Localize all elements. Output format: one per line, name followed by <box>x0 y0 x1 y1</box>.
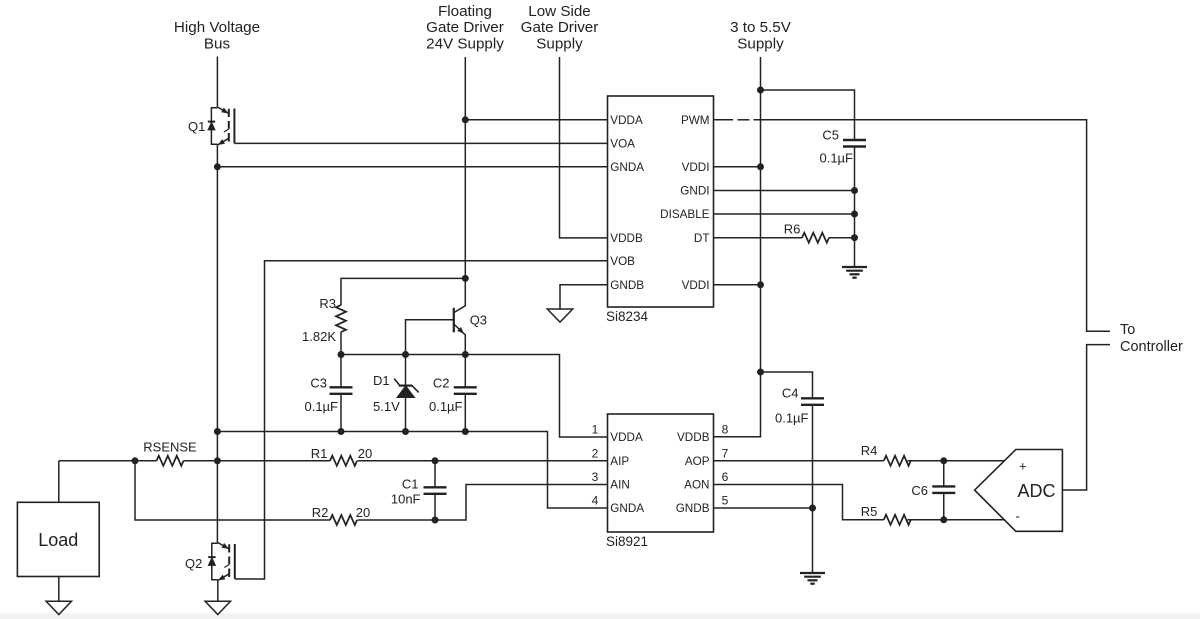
svg-text:Q3: Q3 <box>470 313 487 328</box>
svg-text:C2: C2 <box>433 376 450 391</box>
wire: Q2 emitter to ground <box>217 581 219 602</box>
svg-text:6: 6 <box>722 470 729 484</box>
svg-text:10nF: 10nF <box>391 492 421 507</box>
node: C4 branch junction <box>757 369 764 376</box>
wire: VDDA to Si8234 <box>465 119 607 121</box>
wire: high voltage bus vertical <box>216 57 218 108</box>
node: RSENSE right junction <box>214 457 221 464</box>
wire: emitter node rail to Si8921 VDDA pin1 <box>341 355 608 438</box>
resistor RSENSE <box>157 456 184 466</box>
pin number 6 <box>722 470 729 484</box>
wire: PWM output with dash <box>714 120 1111 331</box>
transistor Q3 (NPN) <box>406 278 466 354</box>
node: C6 top junction <box>940 457 947 464</box>
node: C6 bottom junction <box>940 516 947 523</box>
svg-text:R5: R5 <box>861 504 878 519</box>
wire: load node to RSENSE <box>59 460 157 462</box>
svg-text:High Voltage: High Voltage <box>174 19 260 36</box>
IC U1 Si8234 <box>606 96 714 324</box>
svg-text:VDDB: VDDB <box>610 232 643 245</box>
svg-text:Bus: Bus <box>204 35 231 52</box>
bottom edge strip <box>0 614 1200 619</box>
svg-text:Si8921: Si8921 <box>606 534 648 549</box>
node: GNDA rail at Q1/Q2 vertical <box>214 428 221 435</box>
wire: R6 to ground rail <box>829 237 855 239</box>
svg-text:7: 7 <box>722 446 729 460</box>
svg-text:20: 20 <box>358 446 372 461</box>
pin number 5 <box>722 494 729 508</box>
svg-text:GNDA: GNDA <box>610 161 644 174</box>
svg-text:0.1µF: 0.1µF <box>819 151 853 166</box>
label: High Voltage Bus <box>174 19 260 52</box>
svg-text:Si8234: Si8234 <box>606 309 649 324</box>
svg-text:R6: R6 <box>784 222 801 237</box>
pin labels Si8234 right <box>660 114 710 292</box>
wire: R4 to ADC plus <box>908 460 1005 462</box>
svg-text:Gate Driver: Gate Driver <box>426 19 504 36</box>
wire: C4 branch <box>761 372 813 398</box>
wire: R1 to AIP pin2 <box>358 460 608 462</box>
svg-text:VDDI: VDDI <box>682 161 710 174</box>
node: Q1 emitter / GNDA junction <box>214 163 221 170</box>
svg-text:GNDB: GNDB <box>676 502 710 515</box>
svg-text:DT: DT <box>694 232 710 245</box>
svg-text:VOB: VOB <box>610 255 635 268</box>
label: Low Side Gate Driver Supply <box>521 3 599 52</box>
svg-text:20: 20 <box>356 505 370 520</box>
node: Q3 collector junction <box>462 275 469 282</box>
label Q2 <box>185 556 202 571</box>
svg-text:24V Supply: 24V Supply <box>426 35 504 52</box>
wire: VOA from Q1 gate to Si8234 <box>234 142 607 144</box>
pin number 3 <box>592 470 599 484</box>
svg-text:C1: C1 <box>402 477 419 492</box>
svg-text:VDDA: VDDA <box>610 431 643 444</box>
diode D1 (zener 5.1V) <box>373 355 419 432</box>
node: VDDI top junction <box>757 163 764 170</box>
svg-text:C6: C6 <box>911 483 928 498</box>
svg-text:Low Side: Low Side <box>528 3 590 20</box>
label Q1 <box>188 119 205 134</box>
svg-text:ADC: ADC <box>1017 481 1055 501</box>
wire: DT to R6 <box>714 237 803 239</box>
svg-text:Q2: Q2 <box>185 556 202 571</box>
IC U2 Si8921 <box>606 414 714 549</box>
svg-text:0.1µF: 0.1µF <box>429 399 463 414</box>
wire: Q1 emitter down to Q2 collector <box>216 145 218 543</box>
node: load branch junction <box>132 457 139 464</box>
svg-text:3: 3 <box>592 470 599 484</box>
node: GNDA rail at C3 <box>338 428 345 435</box>
resistor R6 <box>784 222 829 243</box>
pin number 2 <box>592 446 599 460</box>
wire: AOP pin7 to R4 <box>714 460 884 462</box>
transistor Q2 (IGBT with anti-parallel diode) <box>208 543 235 581</box>
wire: C5 branch top <box>761 90 855 140</box>
wire: DISABLE to ground rail <box>714 213 855 215</box>
wire: C4 bottom to ground <box>812 405 814 573</box>
svg-text:R4: R4 <box>861 443 878 458</box>
wire: low side supply to VDDB <box>560 57 608 238</box>
component: Load box <box>17 502 99 576</box>
svg-text:4: 4 <box>592 494 599 508</box>
svg-text:0.1µF: 0.1µF <box>775 411 809 426</box>
svg-text:C3: C3 <box>310 376 327 391</box>
svg-text:2: 2 <box>592 446 599 460</box>
capacitor C3 <box>304 355 352 432</box>
svg-text:PWM: PWM <box>681 114 710 127</box>
capacitor C2 <box>429 355 477 432</box>
ground: earth ground right of Si8234 <box>842 267 867 278</box>
svg-text:3 to 5.5V: 3 to 5.5V <box>730 19 792 36</box>
label: Floating Gate Driver 24V Supply <box>426 3 504 52</box>
wire: R2 to AIN pin3 <box>358 485 608 521</box>
svg-text:0.1µF: 0.1µF <box>304 399 338 414</box>
node: C1 top junction <box>432 457 439 464</box>
svg-text:RSENSE: RSENSE <box>143 439 197 454</box>
wire: AON pin6 to R5 <box>714 485 884 520</box>
svg-text:R1: R1 <box>311 446 328 461</box>
label Q3 <box>470 313 487 328</box>
wire: VDDI bottom pin stub <box>714 284 761 286</box>
node: VDDI bottom junction <box>757 281 764 288</box>
wire: RSENSE to R1 <box>184 460 331 462</box>
wire: GNDI to ground rail <box>714 190 855 192</box>
node: GNDA rail at D1 <box>402 428 409 435</box>
pin number 1 <box>592 423 599 437</box>
svg-text:AIN: AIN <box>610 479 629 492</box>
svg-text:-: - <box>1016 509 1020 524</box>
svg-text:GNDA: GNDA <box>610 502 644 515</box>
wire: 3 to 5.5V supply vertical <box>714 57 761 437</box>
pin labels Si8921 left <box>610 431 644 515</box>
label: To Controller <box>1120 322 1183 355</box>
ground: earth ground below Si8921 <box>800 573 825 584</box>
svg-text:D1: D1 <box>373 373 390 388</box>
transistor Q1 (IGBT with anti-parallel diode) <box>208 107 235 145</box>
wire: R5 to ADC minus <box>908 519 1005 521</box>
pin number 8 <box>722 423 729 437</box>
node: rail junction at R3 <box>338 351 345 358</box>
svg-text:R2: R2 <box>312 505 329 520</box>
svg-text:Floating: Floating <box>438 3 492 20</box>
node: GNDB Si8921 junction <box>809 505 816 512</box>
node: rail junction at C2 <box>462 351 469 358</box>
svg-text:1: 1 <box>592 423 599 437</box>
svg-text:Gate Driver: Gate Driver <box>521 19 599 36</box>
capacitor C1 <box>391 461 447 520</box>
resistor R5 <box>861 504 911 525</box>
svg-text:+: + <box>1019 459 1027 474</box>
svg-text:Supply: Supply <box>737 35 784 52</box>
node: rail junction at D1 <box>402 351 409 358</box>
ground: load ground triangle <box>46 601 71 614</box>
node: GNDI junction <box>851 187 858 194</box>
label: 3 to 5.5V Supply <box>730 19 792 52</box>
capacitor C6 <box>911 461 955 520</box>
svg-text:Controller: Controller <box>1120 339 1183 355</box>
wire: R2 branch from load node <box>135 461 330 520</box>
svg-text:1.82K: 1.82K <box>302 329 336 344</box>
svg-text:DISABLE: DISABLE <box>660 208 710 221</box>
node: C1 bottom junction <box>432 517 439 524</box>
wire: GNDA to Si8234 <box>217 166 607 168</box>
wire: GNDA rail to Si8921 pin4 <box>217 432 607 509</box>
svg-text:C4: C4 <box>782 386 799 401</box>
svg-text:GNDI: GNDI <box>680 185 709 198</box>
wire: load to ground <box>58 577 60 602</box>
capacitor C5 <box>819 128 866 166</box>
svg-text:AIP: AIP <box>610 455 629 468</box>
svg-text:Supply: Supply <box>536 35 583 52</box>
svg-text:C5: C5 <box>822 128 839 143</box>
svg-text:AON: AON <box>684 479 709 492</box>
resistor R1 <box>311 446 373 466</box>
svg-text:Q1: Q1 <box>188 119 205 134</box>
wire: ADC output to controller <box>1062 345 1110 490</box>
wire: GNDB of Si8234 to ground <box>560 285 608 309</box>
svg-text:AOP: AOP <box>685 455 710 468</box>
capacitor C4 <box>775 386 824 426</box>
svg-text:VOA: VOA <box>610 138 635 151</box>
svg-text:8: 8 <box>722 423 729 437</box>
wire: floating 24V supply vertical <box>464 57 466 278</box>
node: GNDA rail at C2 <box>462 428 469 435</box>
svg-text:5: 5 <box>722 494 729 508</box>
svg-text:GNDB: GNDB <box>610 279 644 292</box>
resistor R2 <box>312 505 371 525</box>
node: VDDA supply junction <box>462 116 469 123</box>
svg-text:R3: R3 <box>319 296 336 311</box>
wire: load to node <box>58 461 60 503</box>
node: DISABLE junction <box>851 211 858 218</box>
label RSENSE <box>143 439 197 454</box>
node: supply top junction <box>757 87 764 94</box>
ground: GNDB signal ground triangle <box>547 309 572 322</box>
wire: GNDB pin5 stub <box>714 507 813 509</box>
component: ADC block <box>975 450 1063 532</box>
wire: C5 bottom to ground <box>854 147 856 268</box>
svg-text:5.1V: 5.1V <box>373 399 400 414</box>
node: DT junction <box>851 234 858 241</box>
resistor R4 <box>861 443 911 466</box>
resistor R3 with branch <box>302 278 465 354</box>
svg-text:To: To <box>1120 322 1135 338</box>
svg-text:VDDI: VDDI <box>682 279 710 292</box>
pin number 4 <box>592 494 599 508</box>
ground: Q2 ground triangle <box>205 601 230 614</box>
svg-text:Load: Load <box>38 530 78 550</box>
pin number 7 <box>722 446 729 460</box>
wire: VOB from Si8234 to Q2 gate <box>235 261 608 579</box>
svg-text:VDDA: VDDA <box>610 114 643 127</box>
wire: VDDI top pin stub <box>714 166 761 168</box>
svg-text:VDDB: VDDB <box>677 431 710 444</box>
pin labels Si8921 right <box>676 431 710 515</box>
pin labels Si8234 left <box>610 114 644 292</box>
